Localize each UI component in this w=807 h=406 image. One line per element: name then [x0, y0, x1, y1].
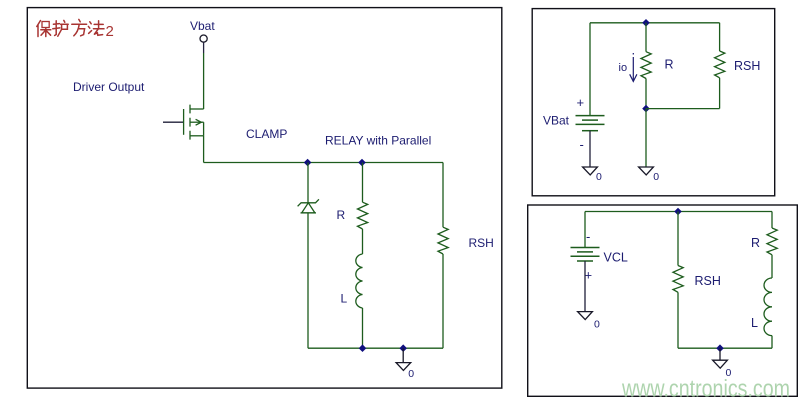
svg-text:R: R: [751, 236, 760, 250]
svg-text:RSH: RSH: [695, 274, 721, 288]
wire: source down to clamp rail: [203, 136, 205, 163]
battery VCL: [571, 248, 600, 262]
svg-text:-: -: [580, 137, 584, 152]
wire: rail to resistor R: [362, 163, 364, 203]
svg-text:0: 0: [653, 171, 659, 183]
方: [72, 19, 87, 35]
wire: RSH to bottom rail: [677, 292, 679, 348]
wire bottom rail: [678, 347, 772, 349]
svg-text:-: -: [586, 229, 590, 244]
svg-text:Driver Output: Driver Output: [73, 80, 145, 94]
wire: rail down to battery: [589, 23, 591, 116]
frame main panel: [27, 8, 502, 389]
resistor R (relay): [358, 202, 368, 229]
wire: R to bottom node: [645, 79, 647, 109]
wire: L to bottom rail: [362, 308, 364, 348]
wire: node to ground: [645, 109, 647, 167]
current arrow io: [630, 53, 637, 81]
法: [88, 22, 91, 34]
svg-text:VCL: VCL: [604, 251, 628, 265]
resistor RSH (bottom-right): [673, 266, 683, 293]
frame top-right panel: [532, 9, 775, 196]
gate pin wire: [163, 121, 183, 123]
svg-text:L: L: [341, 292, 348, 306]
wire: rail to RSH: [677, 212, 679, 266]
inductor L (relay): [356, 254, 363, 308]
保: [37, 21, 41, 37]
svg-text:CLAMP: CLAMP: [246, 127, 287, 141]
ground 0 (main): [396, 348, 411, 370]
wire: battery to ground: [584, 261, 586, 312]
svg-text:R: R: [665, 58, 674, 72]
port Vbat (circle terminal): [200, 35, 207, 42]
node junction at ground: [716, 344, 724, 352]
wire: R to L: [771, 255, 773, 278]
svg-text:RSH: RSH: [734, 59, 760, 73]
frame bottom-right panel: [528, 205, 798, 396]
inductor L (bottom-right): [764, 278, 772, 336]
ground 0 (node): [639, 167, 654, 175]
svg-text:0: 0: [596, 171, 602, 183]
gate bar: [183, 109, 185, 135]
wire: battery to ground: [589, 131, 591, 167]
resistor RSH (main): [438, 227, 448, 254]
svg-text:io: io: [619, 62, 628, 74]
resistor RSH (top-right): [715, 51, 725, 78]
wire bottom rail: [308, 347, 443, 349]
wire: L to bottom rail: [771, 336, 773, 349]
wire: R to L: [362, 229, 364, 254]
resistor R (top-right): [641, 52, 651, 79]
svg-text:www.cntronics.com: www.cntronics.com: [621, 376, 790, 403]
wire: rail to RSH: [719, 23, 721, 51]
wire: RSH to bottom rail: [442, 254, 444, 348]
node junction at zener: [304, 159, 312, 167]
wire: rail to R: [645, 23, 647, 52]
drain leg: [190, 108, 204, 110]
svg-text:L: L: [751, 316, 758, 330]
svg-text:RSH: RSH: [469, 236, 494, 250]
wire: rail to R (right column): [771, 212, 773, 229]
node junction at ground: [399, 344, 407, 352]
ground 0 (bottom-right): [713, 348, 728, 368]
护: [53, 21, 60, 36]
wire: rail to RSH: [442, 163, 444, 228]
svg-text:RELAY with Parallel: RELAY with Parallel: [325, 134, 431, 148]
bulk-to-source vertical: [203, 122, 205, 136]
channel segments: [189, 105, 191, 140]
node junction top: [674, 208, 682, 216]
wire: rail to zener: [307, 163, 309, 203]
resistor R (bottom-right): [767, 228, 777, 255]
wire top rail (VBat to RSH): [590, 22, 720, 24]
title 保护方法2 (red, drawn strokes): [37, 19, 104, 36]
diode D1 (zener clamp): [298, 199, 319, 213]
svg-text:0: 0: [408, 368, 414, 380]
node junction bottom: [642, 105, 650, 113]
svg-text:0: 0: [594, 319, 600, 331]
wire top rail: [204, 162, 443, 164]
svg-text:+: +: [577, 95, 585, 110]
battery VBat: [576, 116, 605, 131]
transistor Q1 (NMOS): [163, 105, 204, 140]
svg-text:VBat: VBat: [543, 114, 570, 128]
wire: node to RSH bottom: [646, 108, 720, 110]
node junction at relay R: [358, 159, 366, 167]
node junction top: [642, 19, 650, 27]
svg-text:R: R: [337, 208, 346, 222]
bulk leg with arrow: [190, 121, 204, 123]
wire: RSH to node rail: [719, 78, 721, 109]
ground 0 (VBat): [583, 167, 598, 175]
ground 0 (VCL): [578, 312, 593, 320]
wire: rail to battery: [584, 212, 586, 248]
wire: zener to bottom rail: [307, 213, 309, 348]
svg-text:2: 2: [106, 23, 114, 40]
wire: port to MOSFET drain: [203, 42, 205, 53]
node junction at L bottom: [359, 344, 367, 352]
svg-text:Vbat: Vbat: [190, 19, 215, 33]
wire top rail (VCL to R): [585, 211, 772, 213]
source leg: [190, 135, 204, 137]
